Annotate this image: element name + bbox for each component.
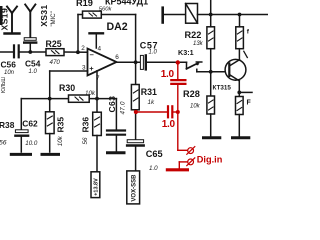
- svg-text:56: 56: [82, 137, 89, 145]
- connector XS19: [5, 7, 20, 34]
- svg-text:1.0: 1.0: [149, 165, 158, 172]
- wire output: [117, 61, 141, 63]
- resistor R19: [83, 11, 102, 18]
- resistor R31: [135, 62, 137, 84]
- svg-text:R35: R35: [55, 117, 65, 133]
- svg-text:560k: 560k: [99, 7, 113, 13]
- resistor R30: [69, 95, 90, 102]
- node R19 feedback: [76, 50, 80, 54]
- svg-text:+: +: [89, 64, 94, 73]
- contact pin lower: [188, 159, 194, 165]
- svg-text:КТ315: КТ315: [213, 84, 232, 91]
- svg-text:13k: 13k: [193, 41, 204, 47]
- svg-text:C62: C62: [22, 119, 38, 129]
- svg-text:XS31: XS31: [39, 5, 49, 27]
- svg-text:470: 470: [50, 59, 61, 66]
- resistor R25: [46, 49, 64, 56]
- ground C62: [11, 153, 30, 156]
- svg-text:ЮЛЬШ: ЮЛЬШ: [1, 77, 7, 93]
- terminal plate top: [161, 8, 164, 23]
- relay coil K3: [186, 4, 198, 24]
- svg-text:C63: C63: [107, 96, 117, 113]
- resistor R35: [46, 112, 55, 134]
- capacitor C54: [24, 38, 36, 52]
- svg-text:1.0: 1.0: [161, 69, 175, 80]
- ground C63: [108, 151, 125, 154]
- wire red down: [177, 63, 179, 80]
- svg-text:K3:1: K3:1: [178, 48, 194, 57]
- capacitor C62: [15, 130, 28, 133]
- svg-text:R31: R31: [141, 87, 157, 97]
- edge bar top-left: [0, 6, 3, 25]
- op-amp U DA2 triangle: [88, 49, 117, 76]
- svg-text:R22: R22: [185, 30, 202, 40]
- svg-text:1.0: 1.0: [29, 69, 38, 75]
- node R30/R35: [48, 97, 52, 101]
- power rail pin 4: [90, 32, 104, 34]
- svg-text:VOX-SSB: VOX-SSB: [132, 174, 138, 202]
- net box +13.8V: [91, 172, 100, 198]
- svg-text:C65: C65: [146, 149, 163, 159]
- svg-text:R30: R30: [59, 83, 75, 93]
- capacitor C57: [140, 55, 143, 69]
- svg-text:10k: 10k: [85, 90, 96, 97]
- svg-text:C56: C56: [1, 60, 17, 70]
- node base wire: [209, 70, 213, 74]
- net box VOX-SSB: [127, 171, 140, 204]
- resistor R22: [210, 0, 212, 27]
- svg-text:1k: 1k: [148, 99, 155, 106]
- ground bottom-right: [233, 136, 249, 139]
- node red tap: [176, 60, 180, 64]
- capacitor C63: [107, 129, 125, 131]
- wire R19 right to output node: [101, 14, 135, 16]
- svg-text:1.0: 1.0: [149, 50, 158, 56]
- svg-text:R36: R36: [81, 117, 91, 133]
- node red tee: [176, 110, 180, 114]
- node R22 col: [209, 13, 213, 17]
- resistor R36: [93, 112, 102, 135]
- svg-text:XS19: XS19: [0, 8, 9, 31]
- svg-text:10k: 10k: [190, 104, 201, 110]
- svg-text:10.0: 10.0: [25, 140, 38, 147]
- node pin7/R30: [95, 97, 99, 101]
- wire C62 to R30: [21, 98, 68, 100]
- svg-text:10n: 10n: [4, 70, 15, 76]
- svg-text:2: 2: [81, 45, 85, 52]
- resistor bottom-right: [236, 97, 244, 115]
- node output/R19/R31: [134, 60, 138, 64]
- emitter column: [238, 81, 240, 97]
- svg-text:F: F: [247, 99, 252, 106]
- capacitor red 1.0 horizontal: [167, 106, 169, 117]
- svg-text:56: 56: [0, 139, 7, 146]
- resistor R28: [207, 96, 215, 114]
- capacitor C65: [127, 140, 143, 143]
- contact pin upper: [188, 148, 194, 154]
- wire pin7: [96, 71, 98, 112]
- svg-text:4: 4: [98, 45, 102, 52]
- capacitor C56: [13, 45, 15, 57]
- ground R28: [204, 136, 220, 139]
- svg-text:R28: R28: [183, 89, 200, 99]
- node C54/wire: [28, 50, 32, 54]
- svg-text:R38: R38: [0, 120, 15, 130]
- capacitor red 1.0 vertical: [171, 79, 185, 81]
- svg-text:Dig.in: Dig.in: [197, 154, 223, 164]
- resistor top-right: [236, 27, 244, 49]
- svg-text:+13.8V: +13.8V: [93, 178, 99, 196]
- connector XS31: [25, 5, 35, 38]
- wire red down to contacts: [177, 112, 179, 150]
- node right col: [238, 13, 242, 17]
- svg-text:10k: 10k: [57, 135, 64, 146]
- svg-text:R25: R25: [46, 39, 62, 49]
- wire red horizontal: [136, 111, 167, 113]
- wire R19 left to pin2 node: [78, 14, 83, 16]
- wire input to pin2: [0, 51, 13, 53]
- svg-text:–: –: [90, 50, 94, 59]
- svg-text:R19: R19: [76, 0, 93, 8]
- svg-text:DA2: DA2: [107, 21, 128, 33]
- svg-text:1.0: 1.0: [162, 119, 176, 130]
- svg-text:C54: C54: [25, 59, 41, 69]
- ground red: [167, 168, 187, 171]
- transistor VT KT315: [225, 59, 246, 80]
- ground R35: [42, 153, 59, 156]
- wire pin3: [50, 70, 88, 72]
- svg-text:КР544УД1: КР544УД1: [105, 0, 148, 7]
- svg-text:6: 6: [115, 54, 119, 61]
- svg-text:"MIC": "MIC": [51, 11, 57, 26]
- svg-text:47.0: 47.0: [120, 101, 127, 115]
